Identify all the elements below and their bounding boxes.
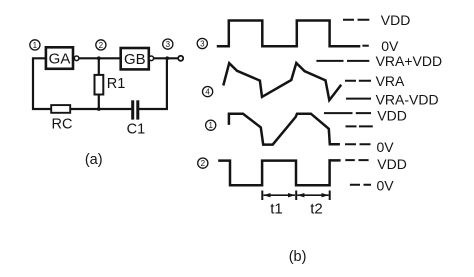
svg-text:2: 2 [201,159,206,168]
waveform node 1 (GA input wave) [229,114,340,145]
VRA-VDD reference dash [346,98,371,100]
svg-text:1: 1 [208,121,213,130]
VDD reference dashes row 2 [345,159,368,161]
resistor RC [51,105,70,113]
svg-text:GB: GB [124,51,146,68]
node label 1 [30,40,40,50]
GA output bubble [74,56,79,61]
node label 3 [163,39,173,49]
wire right vertical (node 3 down to C1) [139,58,167,109]
VRA mid reference dashes row 1 [346,125,373,127]
svg-text:VRA: VRA [376,73,405,89]
svg-text:3: 3 [166,40,171,49]
0V reference dashes row 1 [345,143,371,145]
waveform node 4 (capacitor exponential wave) [223,63,341,100]
wire bottom rail (RC to R1 to C1) [70,108,131,110]
gate GA [46,47,73,69]
svg-text:t1: t1 [270,201,283,218]
waveform row label 3 [197,38,207,48]
waveform node 2 (GA output square wave) [218,160,340,185]
waveform row label 1 [206,120,216,130]
svg-text:0V: 0V [381,38,399,54]
svg-text:R1: R1 [107,76,126,92]
waveform row label 4 [203,87,213,97]
node label 2 [96,40,106,50]
VDD reference dashes row 1 [324,112,371,114]
svg-text:VRA-VDD: VRA-VDD [376,92,439,108]
resistor R1 [95,58,104,109]
gate GB [121,48,149,69]
VRA reference dashes [345,80,371,82]
svg-text:t2: t2 [310,201,323,218]
VDD reference dashes row 3 [343,19,369,21]
0V reference dash row 3 [362,45,368,47]
svg-text:2: 2 [99,41,104,50]
0V reference dashes row 2 [350,184,371,186]
dimension arrow line t2 [297,193,329,197]
svg-text:RC: RC [52,116,73,132]
dimension arrow line t1 [263,193,295,197]
svg-text:3: 3 [200,39,205,48]
svg-text:VDD: VDD [381,12,411,28]
junction node 2 [97,56,101,60]
wire feedback left (GA input to bottom rail) [33,58,51,109]
svg-text:VRA+VDD: VRA+VDD [376,53,443,69]
svg-text:GA: GA [49,51,71,68]
svg-text:VDD: VDD [377,156,407,172]
wire node 3 (GB output to terminal) [154,57,178,59]
capacitor C1 [133,100,138,119]
junction R1 bottom [97,107,101,111]
output terminal [178,56,183,61]
svg-text:0V: 0V [377,178,395,194]
svg-text:(b): (b) [289,249,307,265]
wire node 2 (GA output to GB input) [79,57,121,59]
GB output bubble [149,56,154,61]
svg-text:(a): (a) [85,152,103,168]
junction node 3 [165,56,169,60]
VRA+VDD reference line [316,60,369,62]
svg-text:0V: 0V [377,139,395,155]
svg-text:1: 1 [33,41,38,50]
dimension ticks t1 t2 [262,191,329,201]
svg-text:VDD: VDD [377,107,407,123]
svg-text:C1: C1 [127,122,146,138]
waveform node 3 (square wave) [217,21,360,47]
waveform row label 2 [198,158,208,168]
svg-text:4: 4 [205,88,210,97]
